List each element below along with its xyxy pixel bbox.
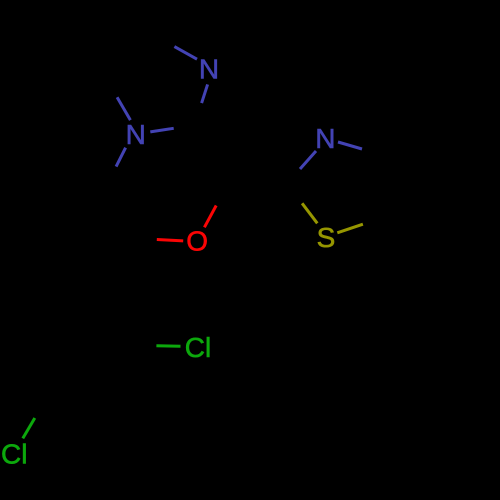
svg-text:N: N [126,119,146,150]
svg-text:Cl: Cl [185,332,211,363]
svg-text:S: S [317,222,336,253]
svg-text:N: N [199,54,219,85]
svg-text:O: O [186,225,208,256]
svg-text:Cl: Cl [1,439,27,470]
svg-text:N: N [315,123,335,154]
